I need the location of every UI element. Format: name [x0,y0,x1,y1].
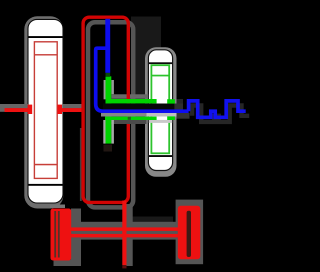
belt black band on right pulley [103,104,175,110]
gray band under blue (outside pulley) [101,113,147,117]
left pulley top separator [29,36,63,38]
left pulley bottom separator [29,184,63,186]
right drum outline [151,65,169,153]
left pulley shadow [24,16,63,208]
gray below left wheel [54,260,82,267]
wave shadow [192,106,249,122]
green fork line 2 [105,117,157,120]
blue input vertical [105,19,110,73]
right pulley shadow [145,47,177,177]
gray strip left of belt lower [80,128,82,201]
descending red line [122,201,126,266]
green arm bottom right [167,116,175,120]
input shaft gray mid [63,104,84,108]
input shaft gray left end wrap [0,104,6,112]
left wheel stripe 1 [54,211,56,258]
shadow right of pulley at gray band row [177,113,190,119]
right pulley bottom separator [149,155,172,157]
dark red tick over green fork line 2 [128,117,131,120]
green arm top right [167,99,175,103]
belt box [83,17,128,202]
gray strip beside descending line [127,204,133,266]
gray band below green fork line 2 [110,120,147,124]
dark backdrop patch above axle [127,217,173,223]
descending red line tail [122,265,126,268]
pulley bottom shadow patch [50,205,65,209]
gray band above green fork line 1 [111,94,148,99]
green shaft lower vertical [106,117,112,144]
green fork line 1 [106,99,157,103]
wave blue [189,101,246,117]
axle gray band [71,222,203,240]
input shaft red left [5,108,29,112]
gray band under blue (inside pulley) [147,113,177,117]
right drum upper line [151,75,169,77]
shadow right of pulley at black band row [175,104,183,110]
input shaft gray left [0,104,28,108]
gray strip right of upper green shaft [111,80,114,94]
gray band below fork line 2 inside pulley [149,120,172,123]
dark backdrop patch right of belt (top) [131,17,161,97]
left pulley drum outline [34,42,57,179]
gray strip left of lower green shaft [103,120,105,144]
left drum lower line [34,164,57,166]
axle line upper [65,227,178,231]
right wheel backdrop [176,200,204,265]
green shaft upper vertical [106,76,112,103]
right wheel [178,206,201,259]
gray strip left of upper green shaft [104,80,106,99]
input shaft red mid [62,108,84,112]
green transition [106,73,111,77]
left pulley body [28,19,63,203]
shaft T-bar left [28,105,33,114]
right wheel slot [187,211,191,257]
right pulley top separator [149,62,172,64]
left wheel stripe 2 [58,211,60,258]
right pulley body [148,50,172,171]
dark blob below green shaft [104,145,113,152]
shadow right of pulley upper [177,99,184,104]
gray strip right of lower green shaft [111,120,114,144]
gray right of left wheel [71,209,81,267]
shaft T-bar right [57,105,62,114]
left drum upper line [34,54,57,55]
left wheel [51,209,72,261]
belt shadow [88,22,133,207]
blue jog branch [96,48,189,111]
axle line lower [65,234,178,238]
